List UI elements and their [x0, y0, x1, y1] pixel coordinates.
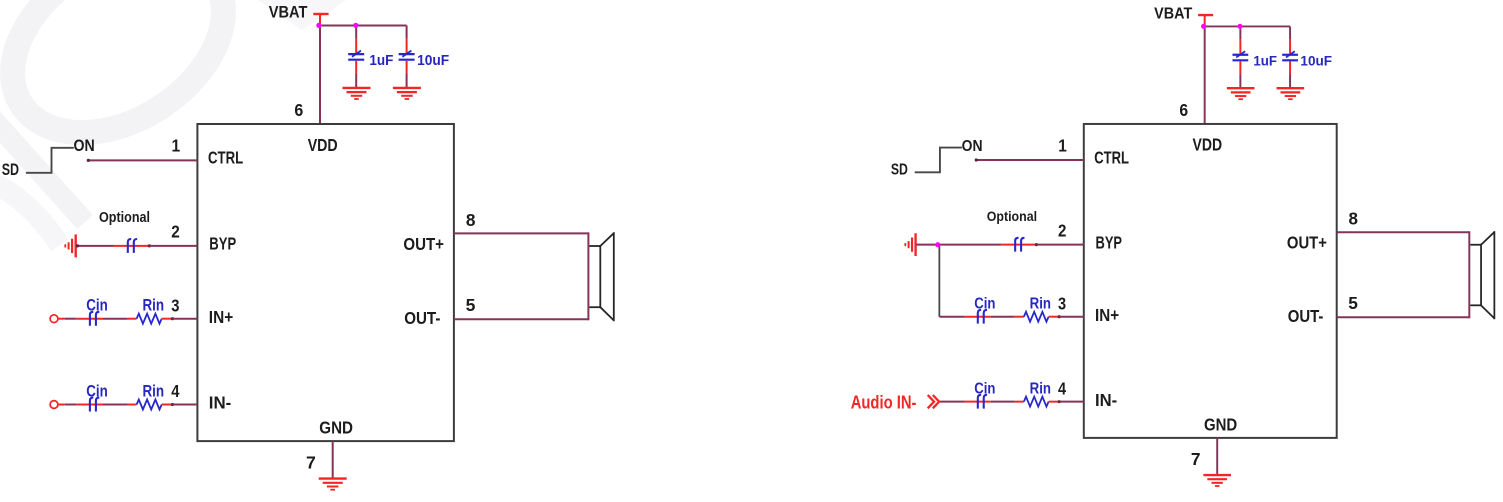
svg-text:IN-: IN-: [1095, 390, 1117, 410]
svg-text:2: 2: [1058, 220, 1066, 240]
svg-text:Cin: Cin: [974, 380, 995, 398]
svg-text:OUT-: OUT-: [1288, 306, 1324, 326]
svg-text:VBAT: VBAT: [269, 4, 308, 22]
svg-text:1uF: 1uF: [369, 53, 393, 69]
svg-text:Rin: Rin: [1030, 380, 1051, 398]
svg-text:Cin: Cin: [86, 297, 108, 315]
svg-text:6: 6: [294, 100, 303, 120]
svg-text:1uF: 1uF: [1253, 53, 1277, 69]
svg-text:VDD: VDD: [1193, 135, 1223, 155]
svg-text:8: 8: [466, 210, 476, 230]
svg-text:IN-: IN-: [209, 393, 232, 413]
svg-text:BYP: BYP: [1096, 232, 1123, 252]
svg-text:SD: SD: [2, 161, 19, 179]
svg-text:3: 3: [1058, 293, 1066, 313]
svg-text:OUT+: OUT+: [403, 234, 444, 254]
svg-text:5: 5: [466, 295, 476, 315]
svg-text:3: 3: [171, 295, 179, 315]
svg-text:1: 1: [172, 136, 181, 156]
svg-text:Rin: Rin: [143, 382, 165, 400]
svg-text:Optional: Optional: [99, 210, 150, 226]
svg-text:VBAT: VBAT: [1154, 4, 1192, 22]
svg-text:10uF: 10uF: [1300, 53, 1332, 69]
svg-text:Rin: Rin: [143, 297, 165, 315]
svg-text:8: 8: [1349, 209, 1359, 229]
svg-text:GND: GND: [1204, 414, 1237, 434]
svg-text:IN+: IN+: [209, 307, 233, 327]
svg-text:GND: GND: [319, 418, 353, 438]
svg-text:1: 1: [1058, 135, 1067, 155]
svg-text:CTRL: CTRL: [208, 148, 243, 168]
svg-text:SD: SD: [891, 161, 908, 179]
svg-text:6: 6: [1179, 100, 1188, 120]
svg-text:OUT-: OUT-: [404, 308, 440, 328]
svg-text:ON: ON: [962, 137, 983, 155]
svg-text:Optional: Optional: [987, 208, 1037, 224]
svg-text:BYP: BYP: [209, 234, 236, 254]
svg-text:Audio IN-: Audio IN-: [851, 392, 917, 413]
svg-text:CTRL: CTRL: [1094, 147, 1129, 167]
svg-text:OUT+: OUT+: [1287, 233, 1327, 253]
svg-text:Cin: Cin: [86, 382, 108, 400]
svg-text:Rin: Rin: [1030, 295, 1051, 313]
svg-text:VDD: VDD: [308, 135, 338, 155]
svg-text:4: 4: [1058, 378, 1066, 398]
svg-text:Cin: Cin: [974, 295, 995, 313]
svg-text:10uF: 10uF: [417, 53, 449, 69]
svg-text:5: 5: [1348, 293, 1358, 313]
svg-text:ON: ON: [74, 137, 95, 155]
svg-text:IN+: IN+: [1095, 305, 1119, 325]
svg-text:7: 7: [306, 453, 316, 473]
svg-text:4: 4: [171, 381, 179, 401]
svg-text:2: 2: [171, 222, 180, 242]
svg-text:7: 7: [1191, 449, 1201, 469]
